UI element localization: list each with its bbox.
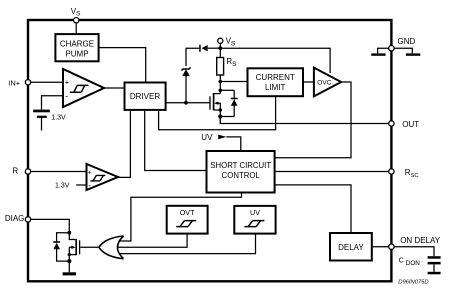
wire current limit feedback to driver bbox=[159, 96, 276, 130]
svg-text:IN+: IN+ bbox=[8, 78, 21, 87]
junction DIAG drain node bbox=[67, 231, 71, 235]
short circuit control U4 bbox=[207, 151, 275, 193]
wire delay to ON DELAY terminal bbox=[372, 246, 389, 248]
svg-text:-: - bbox=[65, 91, 68, 101]
wire tap to body diode bbox=[220, 89, 234, 91]
wire SCC bottom to OR gate bbox=[120, 193, 242, 242]
svg-text:OVC: OVC bbox=[317, 79, 331, 86]
wire tap to current limit bbox=[220, 81, 247, 83]
charge pump U1 bbox=[55, 34, 98, 61]
junction diode tap bbox=[219, 89, 223, 93]
wire UV to short circuit control top bbox=[226, 137, 240, 151]
svg-text:ON DELAY: ON DELAY bbox=[400, 236, 441, 245]
wire 1.3V stub to minus input bbox=[76, 184, 86, 186]
diode D3 (gate-source) bbox=[53, 233, 69, 261]
terminal IN+ bbox=[25, 80, 30, 85]
svg-text:DON: DON bbox=[406, 260, 420, 267]
svg-text:UV: UV bbox=[250, 208, 260, 217]
wire ON DELAY to capacitor bbox=[394, 247, 434, 257]
svg-text:R: R bbox=[12, 167, 18, 176]
UV comparator box bbox=[234, 206, 275, 234]
svg-text:+: + bbox=[88, 170, 92, 177]
wire DIAG to MOSFET drain bbox=[31, 219, 70, 232]
wire UV out to OR gate bbox=[120, 234, 256, 254]
wire charge pump out to driver top bbox=[99, 48, 146, 83]
svg-text:C: C bbox=[399, 258, 404, 265]
svg-text:DRIVER: DRIVER bbox=[130, 92, 160, 101]
svg-text:SHORT CIRCUIT: SHORT CIRCUIT bbox=[210, 161, 271, 170]
delay U5 bbox=[330, 233, 372, 261]
MOSFET Q2 (diagnostic open drain) bbox=[68, 233, 80, 261]
svg-text:CONTROL: CONTROL bbox=[222, 171, 261, 180]
junction source node bbox=[218, 114, 222, 118]
diode D1 bbox=[199, 45, 208, 52]
wire OR output to Q2 gate bbox=[80, 246, 99, 248]
comparator A1 (input) bbox=[63, 69, 104, 107]
wire OVC out to short circuit control bbox=[275, 82, 351, 158]
ground (right of GND pin) bbox=[394, 48, 420, 56]
body diode D2 bbox=[231, 90, 238, 116]
current limit U3 bbox=[248, 68, 304, 96]
wire R to comparator bbox=[31, 171, 87, 173]
wire comparator A2 out to driver bbox=[118, 110, 130, 177]
wire SCC to delay bbox=[275, 185, 351, 233]
junction gate node bbox=[184, 101, 188, 105]
junction current-limit tap bbox=[219, 80, 223, 84]
terminal OUT bbox=[389, 121, 394, 126]
op-amp OVC bbox=[314, 68, 341, 97]
svg-text:1.3V: 1.3V bbox=[51, 114, 66, 121]
wire source to body diode bottom bbox=[220, 116, 234, 118]
svg-text:CURRENT: CURRENT bbox=[256, 73, 295, 82]
terminal ON DELAY bbox=[389, 244, 394, 249]
wire RS bottom to MOSFET drain bbox=[219, 75, 221, 94]
terminal VS (top) bbox=[74, 18, 79, 35]
svg-text:UV: UV bbox=[201, 133, 213, 142]
wire VS node left to diode bbox=[208, 47, 221, 49]
capacitor CDON bbox=[428, 256, 441, 274]
junction VS node bbox=[218, 46, 222, 50]
hysteresis glyph A2 bbox=[90, 175, 105, 181]
hysteresis glyph OVT bbox=[176, 221, 196, 227]
terminal R bbox=[25, 169, 30, 174]
wire diode to zener corner bbox=[186, 48, 199, 66]
OR gate G1 (mirrored) bbox=[99, 236, 124, 259]
resistor RS bbox=[217, 58, 224, 76]
wire current limit to OVC bbox=[303, 81, 314, 83]
wire IN+ to comparator bbox=[31, 81, 63, 83]
junction source-diode node bbox=[67, 259, 71, 263]
wire OUT line bbox=[220, 117, 388, 124]
svg-text:GND: GND bbox=[398, 37, 416, 46]
terminal GND bbox=[389, 46, 394, 51]
OVT comparator box bbox=[167, 206, 208, 234]
wire SCC to RSC terminal bbox=[275, 171, 389, 173]
arrow UV signal bbox=[218, 135, 226, 140]
svg-text:+: + bbox=[65, 78, 70, 87]
svg-text:OVT: OVT bbox=[180, 208, 195, 217]
svg-text:D96IN075D: D96IN075D bbox=[398, 279, 428, 285]
wire comparator minus to 1.3V ref bbox=[42, 96, 64, 110]
zener Z1 bbox=[181, 67, 190, 102]
package outline bbox=[28, 20, 391, 281]
driver U2 bbox=[125, 83, 166, 110]
svg-text:-: - bbox=[88, 181, 91, 190]
wire driver out to gate bbox=[166, 102, 210, 104]
svg-text:1.3V: 1.3V bbox=[55, 183, 70, 190]
wire source down bbox=[219, 110, 221, 124]
svg-text:PUMP: PUMP bbox=[65, 50, 88, 59]
wire OVT out to OR gate bbox=[118, 234, 187, 248]
wire driver to SCC left input bbox=[145, 110, 207, 171]
hysteresis glyph A1 bbox=[70, 85, 89, 92]
ground (left of GND pin) bbox=[371, 48, 388, 56]
svg-text:DIAG: DIAG bbox=[5, 214, 25, 223]
svg-text:OUT: OUT bbox=[402, 120, 419, 129]
terminal VS (inner) bbox=[218, 38, 223, 57]
terminal DIAG bbox=[25, 217, 30, 222]
wire VS node right to OVC supply bbox=[220, 48, 330, 73]
wire comparator A1 out bbox=[104, 87, 125, 89]
battery 1.3V reference bbox=[33, 110, 50, 131]
ground (DIAG source) bbox=[63, 261, 76, 275]
power MOSFET Q1 bbox=[210, 93, 222, 112]
svg-text:CHARGE: CHARGE bbox=[60, 40, 94, 49]
hysteresis glyph UV bbox=[244, 221, 264, 227]
comparator A2 (restart) bbox=[87, 164, 119, 190]
terminal RSC bbox=[389, 169, 394, 174]
svg-text:DELAY: DELAY bbox=[338, 243, 364, 252]
svg-text:LIMIT: LIMIT bbox=[265, 83, 286, 92]
